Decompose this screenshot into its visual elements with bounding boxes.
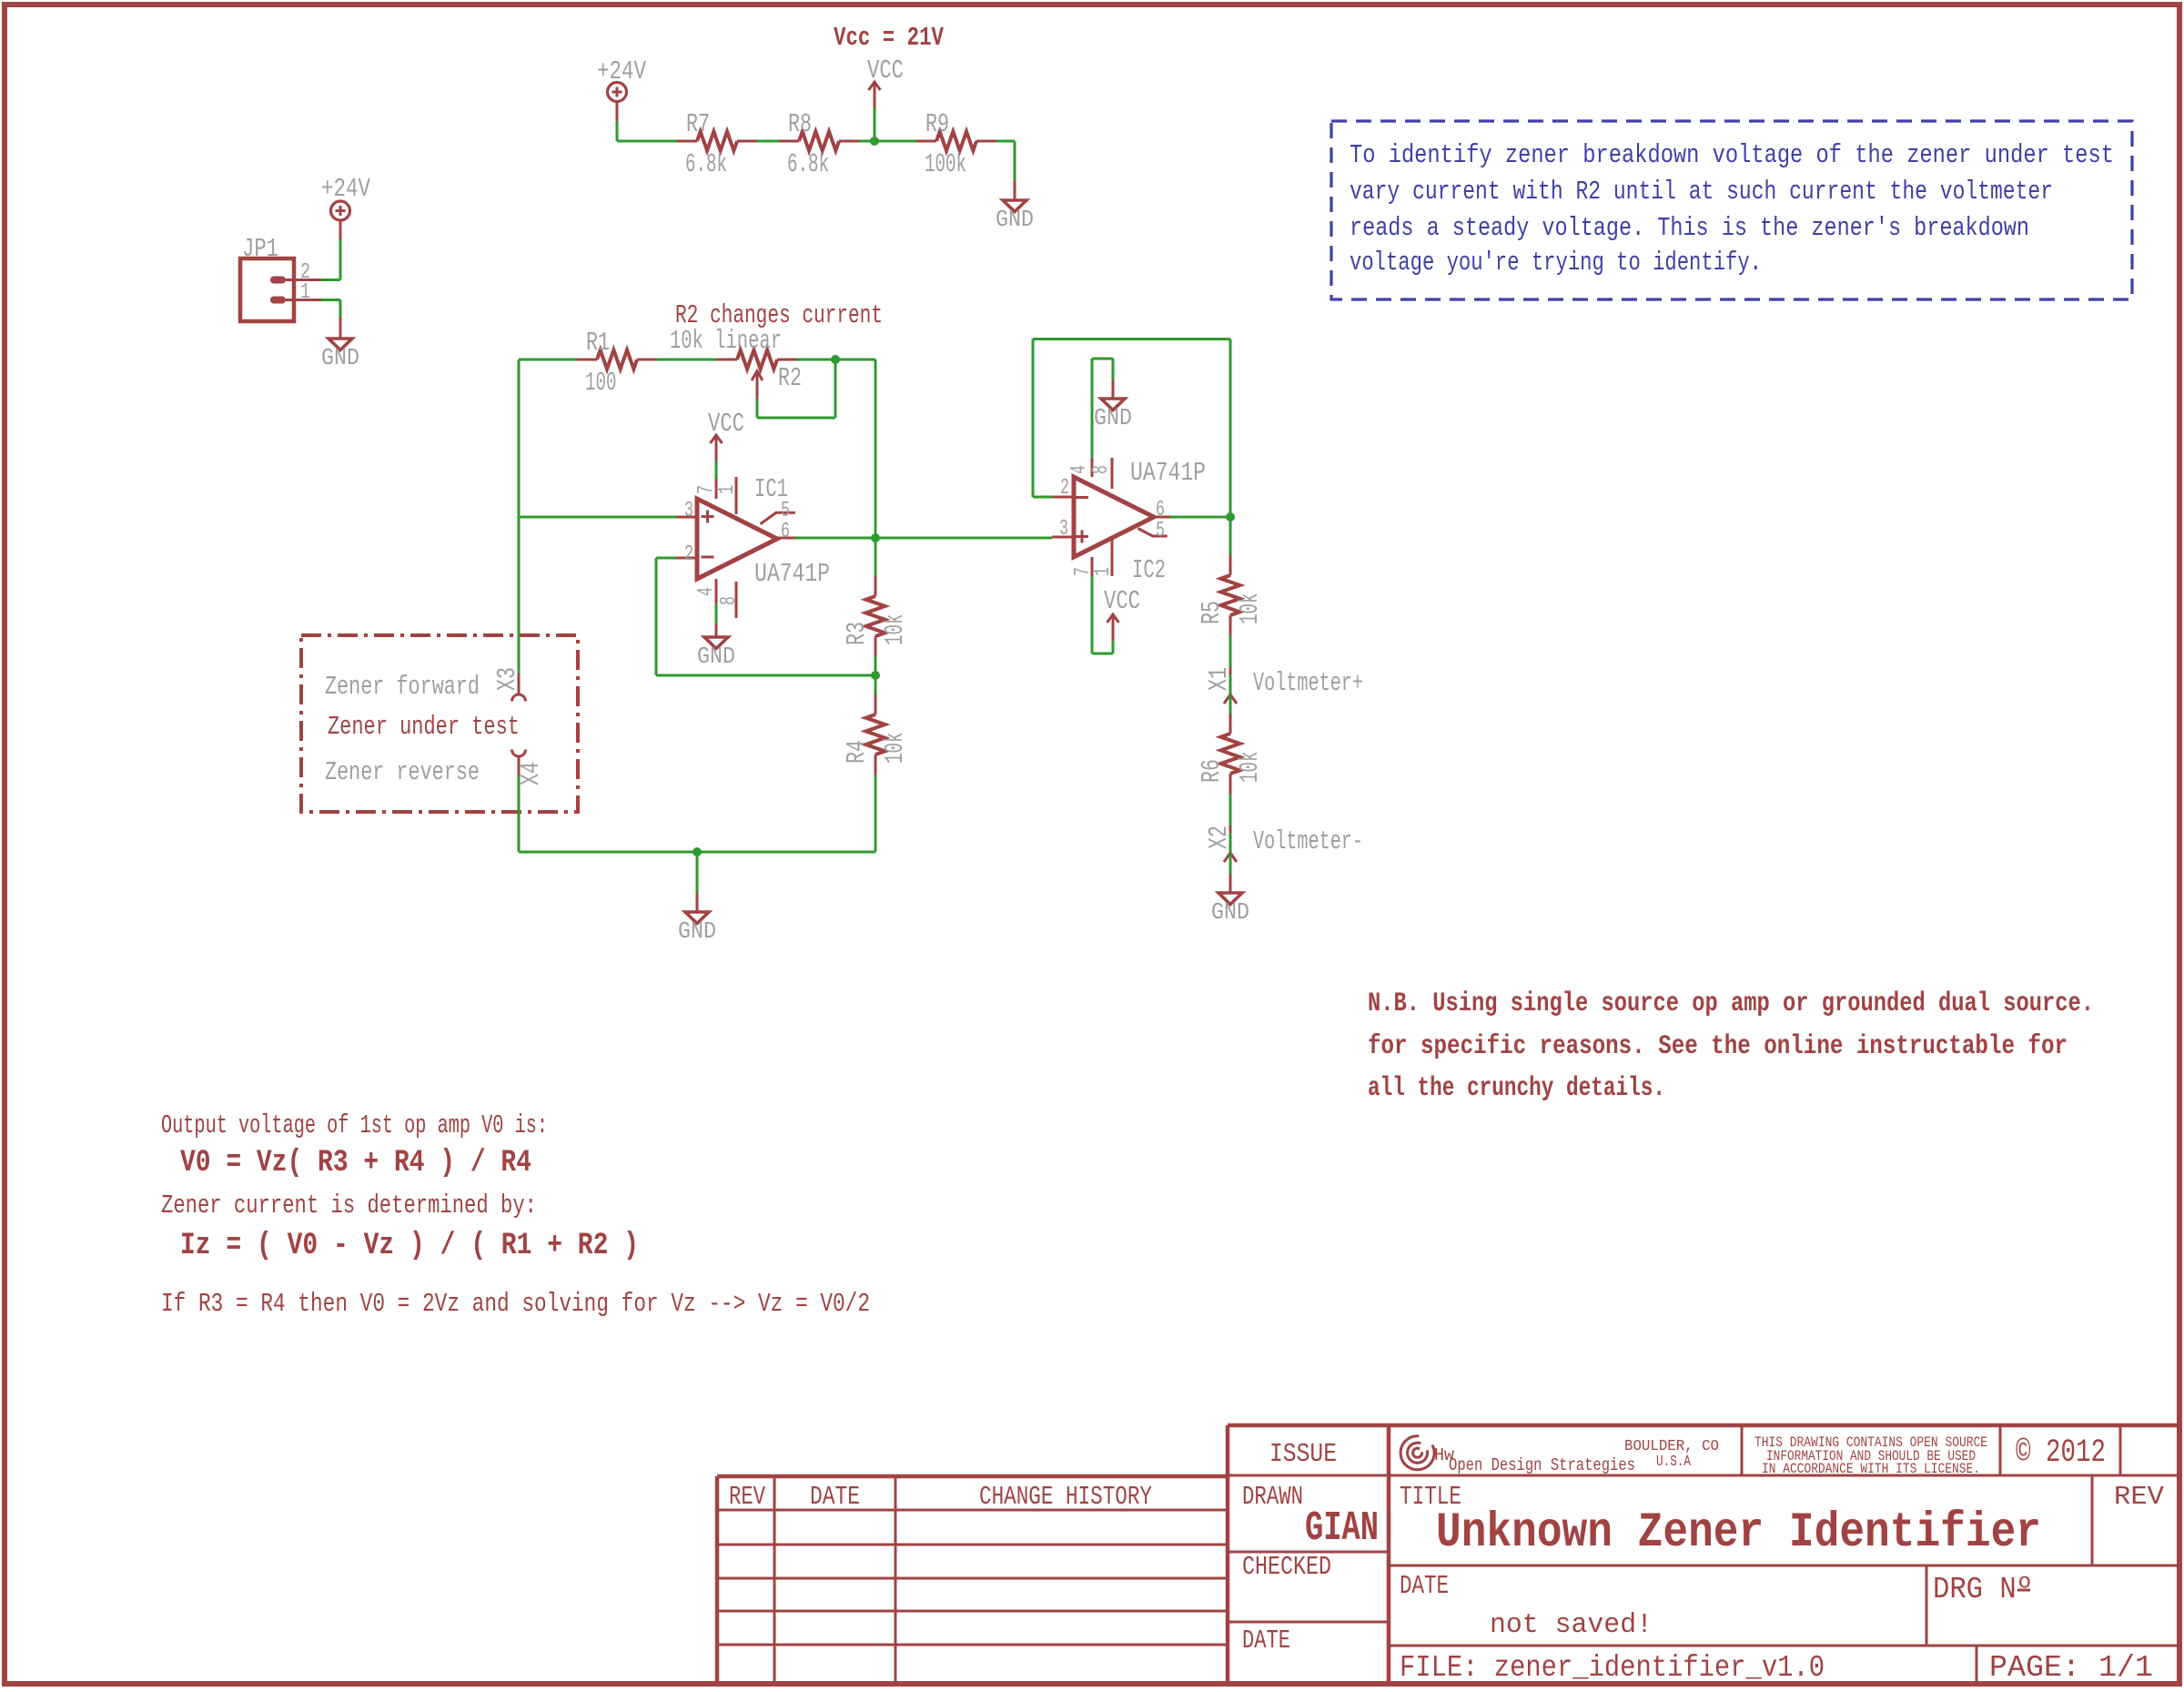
svg-text:Zener forward: Zener forward [325,672,480,702]
svg-text:2: 2 [1060,476,1069,501]
svg-text:10k: 10k [880,733,910,765]
svg-text:all the crunchy details.: all the crunchy details. [1368,1073,1665,1104]
IC1 pin 2 wire (- input) [676,557,697,560]
svg-text:voltage you're trying to ident: voltage you're trying to identify. [1350,248,1762,278]
svg-text:VCC: VCC [708,409,744,439]
svg-text:R2: R2 [778,363,802,393]
svg-text:GND: GND [697,643,735,670]
svg-text:2: 2 [684,542,693,567]
svg-text:Iz = ( V0 - Vz ) / ( R1 + R2 ): Iz = ( V0 - Vz ) / ( R1 + R2 ) [180,1229,639,1263]
resistor R6 10k [1197,714,1265,794]
wire node to R4 [875,675,877,694]
svg-text:100k: 100k [925,149,966,179]
svg-text:GIAN: GIAN [1305,1505,1379,1552]
wire IC2 out to node [1170,516,1230,519]
svg-text:VCC: VCC [867,56,904,86]
node IC1 output [871,533,880,542]
wire to GND (top right) [1014,180,1016,200]
svg-text:vary current with R2 until at: vary current with R2 until at such curre… [1350,177,2053,207]
IC1 pin 7 VCC [715,479,718,499]
svg-text:UA741P: UA741P [754,559,830,589]
svg-text:4: 4 [694,587,719,596]
svg-text:4: 4 [1067,465,1092,474]
IC1 pin 5 stub [760,512,795,524]
wire wiper loop [757,417,835,420]
power VCC symbol (IC2) [1107,614,1119,641]
logo Open Design Strategies [1400,1436,1434,1470]
svg-text:+24V: +24V [597,56,646,86]
svg-text:X2: X2 [1204,826,1234,849]
wire R2 right [797,359,875,361]
IC2 pin 7 VCC wire [1091,557,1094,576]
IC2 feedback loop [1032,339,1035,498]
svg-text:Unknown Zener Identifier: Unknown Zener Identifier [1436,1505,2041,1561]
op-amp IC1 triangle [697,499,777,579]
power VCC symbol (IC1) [711,435,723,461]
ground GND (IC1 pin4) [697,637,735,670]
svg-text:CHANGE HISTORY: CHANGE HISTORY [979,1482,1152,1512]
IC2 pin 1 line [1111,537,1114,576]
JP1 pin 2 stub [270,277,286,284]
wire +24V to rail [616,102,619,121]
svg-text:for specific reasons. See the: for specific reasons. See the online ins… [1368,1031,2068,1062]
svg-text:8: 8 [717,596,742,605]
svg-text:GND: GND [321,344,359,371]
svg-text:+24V: +24V [321,174,370,204]
resistor R8 6.8k [779,109,859,179]
svg-text:R6: R6 [1197,759,1227,783]
wire junction to GND (bottom) [696,852,699,893]
node R2 output [831,355,840,364]
svg-text:R5: R5 [1197,601,1227,624]
resistor R1 100 [577,328,657,398]
IC2 pin 6 output [1154,516,1170,519]
ground GND (bottom) [678,912,716,945]
connector JP1 box [240,258,294,321]
pin X1 [1224,694,1237,704]
pin X2 [1224,853,1237,862]
svg-text:GND: GND [996,206,1034,233]
node IC2 output [1226,512,1235,522]
svg-text:U.S.A: U.S.A [1656,1454,1692,1471]
node R3/R4 [871,671,880,680]
svg-text:10k linear: 10k linear [670,326,782,356]
wire R5 to X1 [1229,635,1232,667]
wire JP1 pin1 to GND [321,299,340,301]
resistor R9 100k [916,109,996,179]
IC2 pin 2 wire [1033,496,1053,499]
svg-text:Voltmeter+: Voltmeter+ [1253,668,1363,698]
ground GND (top right) [996,200,1034,233]
svg-text:GND: GND [1211,898,1249,926]
wire pin3 node down to X3 [518,517,521,674]
ground GND (voltmeter) [1211,893,1249,926]
svg-text:Open Design Strategies: Open Design Strategies [1449,1455,1635,1475]
svg-text:6: 6 [781,520,790,544]
IC2 pin 8 line [1111,458,1114,489]
dashed box zener under test [301,635,578,812]
+24V supply symbol (JP1) [331,201,350,220]
svg-text:R1: R1 [586,328,610,358]
svg-text:6.8k: 6.8k [685,149,727,179]
svg-text:R9: R9 [925,109,949,139]
svg-text:DATE: DATE [810,1482,860,1512]
svg-text:3: 3 [684,499,693,523]
wire R4 down to bottom rail [875,775,877,852]
pin X3 [518,674,521,694]
svg-text:6.8k: 6.8k [787,149,829,179]
IC1 pin 6 output [777,537,795,540]
IC2 pin 5 stub [1138,529,1168,537]
svg-text:GND: GND [1094,404,1132,431]
svg-text:To identify zener breakdown vo: To identify zener breakdown voltage of t… [1350,140,2114,170]
wire X2 to GND [1229,853,1232,874]
ground GND (IC2 pin4) [1094,399,1132,431]
+24V supply symbol (top rail) [608,83,627,102]
wire R3 to node [875,656,877,675]
wire node to R3 [875,538,877,576]
svg-text:JP1: JP1 [242,234,278,264]
svg-text:Output voltage of 1st op amp V: Output voltage of 1st op amp V0 is: [161,1110,548,1140]
wire down to op-amp output node [875,360,877,538]
svg-text:Zener current is determined by: Zener current is determined by: [161,1190,537,1221]
IC1 pin 3 wire (+ input) [519,516,657,519]
wire R1 to R2 [657,359,717,361]
IC2 pin 4 wire to GND [1091,458,1094,477]
resistor R3 10k [842,576,910,656]
svg-text:X3: X3 [492,667,522,691]
svg-text:100: 100 [585,368,617,398]
wire X1 to R6 [1229,694,1232,715]
svg-text:DATE: DATE [1242,1626,1290,1656]
svg-text:X1: X1 [1204,667,1234,691]
wire R7-R8 [757,140,779,143]
svg-text:V0 = Vz( R3 + R4 ) / R4: V0 = Vz( R3 + R4 ) / R4 [180,1146,531,1180]
svg-text:IC2: IC2 [1132,555,1166,585]
svg-text:10k: 10k [880,614,910,646]
svg-text:DRAWN: DRAWN [1242,1482,1303,1512]
svg-text:PAGE: 1/1: PAGE: 1/1 [1989,1651,2153,1685]
svg-text:REV: REV [2114,1482,2165,1512]
wire node up to VCC [874,108,876,141]
svg-text:Zener under test: Zener under test [328,712,520,742]
resistor R7 6.8k [677,109,757,179]
svg-text:CHECKED: CHECKED [1242,1552,1331,1582]
title block grid [717,1474,1228,1479]
R2 wiper arrow [752,371,763,380]
svg-text:Vcc = 21V: Vcc = 21V [834,23,944,53]
svg-text:R7: R7 [686,109,710,139]
svg-text:R3: R3 [842,622,872,645]
power VCC symbol (top) [869,82,881,108]
node bottom GND junction [693,847,702,856]
svg-text:10k: 10k [1235,593,1265,625]
svg-text:ISSUE: ISSUE [1269,1439,1337,1469]
op-amp IC2 triangle [1074,477,1154,557]
svg-text:VCC: VCC [1104,586,1140,616]
svg-text:IN ACCORDANCE WITH ITS LICENSE: IN ACCORDANCE WITH ITS LICENSE. [1762,1461,1980,1477]
svg-text:10k: 10k [1235,752,1265,784]
svg-text:Voltmeter-: Voltmeter- [1253,826,1363,856]
node VCC junction [870,137,879,146]
wire R9 to corner [996,140,1015,143]
svg-text:© 2012: © 2012 [2016,1434,2106,1471]
wire JP1 pin2 to +24V [321,279,340,281]
resistor R5 10k [1197,555,1265,635]
svg-text:5: 5 [1156,519,1165,543]
svg-text:8: 8 [1089,465,1114,474]
IC1 pin 8 line [735,582,738,618]
svg-text:GND: GND [678,917,716,945]
wire R6 to X2 [1229,794,1232,826]
wire R8 to VCC node [859,140,916,143]
svg-text:X4: X4 [516,762,546,785]
svg-text:N.B. Using single source op am: N.B. Using single source op amp or groun… [1368,988,2094,1019]
IC2 pin 3 stub [1052,536,1074,539]
svg-text:R8: R8 [788,109,812,139]
note box (blue dashed) [1331,121,2132,299]
svg-text:6: 6 [1156,498,1165,522]
svg-text:1: 1 [300,280,310,305]
potentiometer R2 10k linear [717,359,737,361]
svg-text:1: 1 [1091,567,1116,576]
pin X4 [512,750,526,757]
svg-text:Zener reverse: Zener reverse [325,757,480,787]
wire node to R5 [1229,517,1232,555]
svg-text:UA741P: UA741P [1130,458,1206,488]
svg-text:If R3 = R4 then V0 = 2Vz and s: If R3 = R4 then V0 = 2Vz and solving for… [161,1289,870,1319]
svg-text:DATE: DATE [1400,1571,1449,1601]
IC1 feedback wire pin2 to R3/R4 node [655,558,658,675]
JP1 pin 1 stub [270,297,286,304]
resistor R4 10k [842,694,910,775]
IC1 pin 1 line [735,477,738,514]
svg-text:not saved!: not saved! [1490,1609,1653,1641]
svg-text:reads a steady voltage. This i: reads a steady voltage. This is the zene… [1350,213,2029,243]
IC1 pin 4 GND [715,579,718,603]
svg-text:R4: R4 [842,740,872,764]
wire IC1 out to IC2 in [795,537,1052,540]
svg-text:1: 1 [715,485,740,494]
svg-text:FILE: zener_identifier_v1.0: FILE: zener_identifier_v1.0 [1400,1651,1825,1685]
wire left vertical top [518,360,521,517]
ground GND (JP1) [321,339,359,371]
svg-text:3: 3 [1059,517,1068,542]
svg-text:REV: REV [729,1482,765,1512]
